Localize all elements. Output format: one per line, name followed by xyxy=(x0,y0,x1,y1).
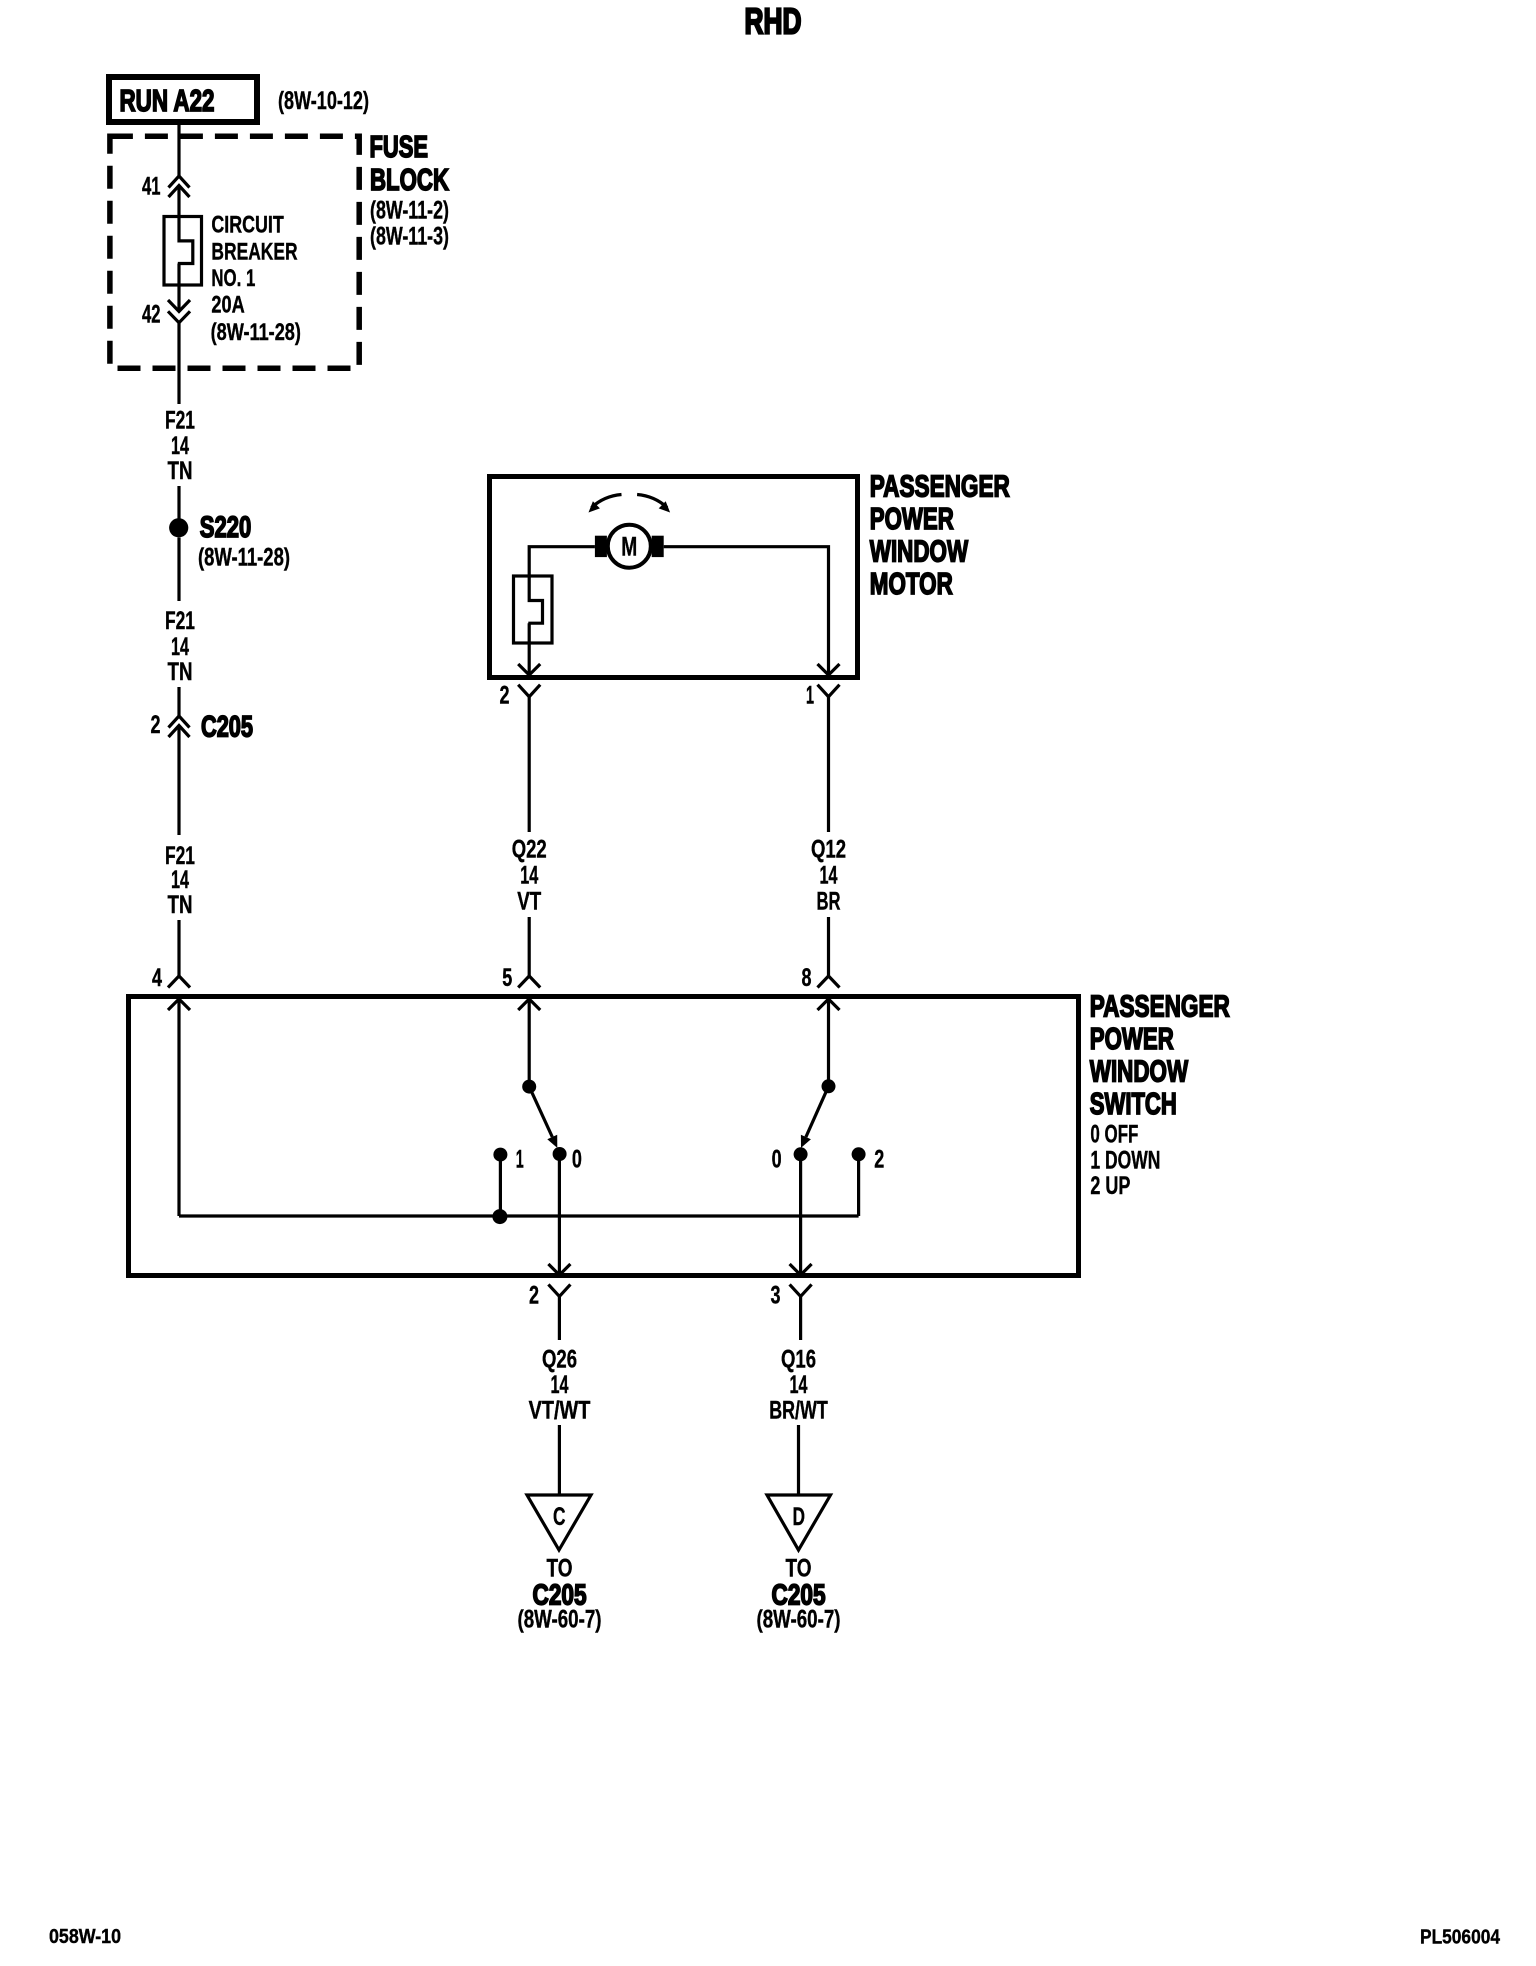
svg-text:RUN A22: RUN A22 xyxy=(120,83,215,118)
svg-text:TN: TN xyxy=(168,658,193,686)
contact 0 dot xyxy=(553,1147,567,1161)
svg-text:WINDOW: WINDOW xyxy=(1090,1054,1189,1089)
switch pivot left xyxy=(522,1080,536,1094)
svg-text:S220: S220 xyxy=(200,511,252,544)
svg-text:TO: TO xyxy=(547,1555,573,1583)
wire to splice xyxy=(177,486,180,519)
junction dot xyxy=(492,1209,507,1224)
motor brush right xyxy=(652,536,664,557)
svg-text:20A: 20A xyxy=(211,291,244,318)
svg-text:(8W-60-7): (8W-60-7) xyxy=(518,1606,602,1634)
svg-text:NO. 1: NO. 1 xyxy=(211,265,255,292)
svg-text:PASSENGER: PASSENGER xyxy=(1090,989,1230,1024)
switch pivot right xyxy=(822,1079,836,1093)
wire contact0 down exit xyxy=(558,1154,561,1275)
svg-text:(8W-11-28): (8W-11-28) xyxy=(198,544,290,572)
connector Y motor pin 2 xyxy=(518,685,540,697)
svg-text:1 DOWN: 1 DOWN xyxy=(1090,1147,1160,1175)
svg-text:Q16: Q16 xyxy=(781,1346,816,1374)
svg-text:4: 4 xyxy=(152,964,162,992)
motor M xyxy=(608,525,651,568)
wire Q12 to switch pin 8 xyxy=(827,917,830,976)
svg-text:0: 0 xyxy=(572,1145,582,1173)
svg-text:BLOCK: BLOCK xyxy=(370,162,449,197)
svg-text:14: 14 xyxy=(551,1371,569,1399)
svg-text:(8W-11-3): (8W-11-3) xyxy=(370,222,449,250)
svg-text:BREAKER: BREAKER xyxy=(211,238,297,265)
node RUN A22 feed box xyxy=(109,77,257,122)
svg-text:8: 8 xyxy=(802,964,812,992)
svg-text:0 OFF: 0 OFF xyxy=(1090,1121,1138,1149)
rotation arrow left xyxy=(592,495,622,508)
wire contact1 to bus xyxy=(499,1155,502,1216)
svg-text:Q26: Q26 xyxy=(542,1346,577,1374)
contact 1 dot xyxy=(493,1148,507,1162)
connector pin 41 chevrons xyxy=(169,176,190,197)
svg-text:C205: C205 xyxy=(201,711,253,744)
wire contact0 right down exit xyxy=(799,1154,802,1275)
wire below splice xyxy=(177,538,180,602)
arrowhead motor pin1 xyxy=(818,664,840,675)
svg-text:1: 1 xyxy=(806,682,814,710)
wire contact2 to bus xyxy=(857,1154,860,1216)
wire entry4 down xyxy=(177,999,180,1216)
svg-text:2: 2 xyxy=(874,1145,884,1173)
svg-text:POWER: POWER xyxy=(870,501,954,536)
wire entry5 to pivot xyxy=(528,999,531,1086)
svg-text:SWITCH: SWITCH xyxy=(1090,1086,1177,1121)
wire to switch pin 4 xyxy=(177,920,180,976)
switch arm right xyxy=(806,1086,829,1137)
wire motor internal left xyxy=(529,547,595,575)
svg-text:TN: TN xyxy=(168,891,193,919)
svg-text:14: 14 xyxy=(171,432,189,460)
bus wire horizontal xyxy=(179,1214,859,1217)
svg-text:058W-10: 058W-10 xyxy=(49,1926,121,1948)
motor circuit breaker element xyxy=(528,575,542,676)
splice S220 xyxy=(169,518,188,537)
svg-text:41: 41 xyxy=(142,173,161,201)
svg-text:2: 2 xyxy=(500,682,510,710)
wire from RUN A22 into fuse block xyxy=(177,122,180,176)
svg-text:PASSENGER: PASSENGER xyxy=(870,469,1010,504)
svg-text:(8W-11-2): (8W-11-2) xyxy=(370,197,449,225)
svg-text:BR/WT: BR/WT xyxy=(769,1396,828,1424)
wire fuse block exit xyxy=(177,323,180,404)
svg-text:14: 14 xyxy=(790,1371,808,1399)
svg-text:14: 14 xyxy=(520,861,538,889)
fuse block dashed boundary xyxy=(110,136,359,368)
svg-text:POWER: POWER xyxy=(1090,1021,1174,1056)
rotation arrow right xyxy=(637,495,667,508)
arrowhead switch entry 4 xyxy=(168,999,190,1010)
contact 0 right dot xyxy=(794,1147,808,1161)
wire to connector C205 xyxy=(177,687,180,716)
motor circuit breaker body xyxy=(514,576,553,643)
motor brush left xyxy=(595,536,607,557)
arrowhead switch entry 8 xyxy=(818,999,840,1010)
contact 2 dot xyxy=(852,1147,866,1161)
connector Y switch pin 2 xyxy=(548,1284,570,1296)
svg-text:(8W-10-12): (8W-10-12) xyxy=(278,87,369,115)
svg-text:1: 1 xyxy=(516,1145,524,1173)
svg-text:2: 2 xyxy=(529,1282,539,1310)
svg-text:14: 14 xyxy=(171,866,189,894)
wire to off-page C xyxy=(558,1425,561,1495)
off-page connector C triangle xyxy=(527,1495,591,1550)
wire to off-page D xyxy=(797,1425,800,1495)
svg-text:0: 0 xyxy=(772,1145,782,1173)
arrowhead motor pin2 xyxy=(518,664,540,675)
svg-text:WINDOW: WINDOW xyxy=(870,534,969,569)
connector chevron pin 8 xyxy=(818,976,840,988)
connector Y switch pin 3 xyxy=(790,1284,812,1296)
svg-text:VT/WT: VT/WT xyxy=(529,1396,591,1424)
svg-text:RHD: RHD xyxy=(745,1,802,42)
svg-text:Q22: Q22 xyxy=(512,835,547,863)
connector chevron pin 5 xyxy=(518,976,540,988)
connector chevron pin 4 xyxy=(168,976,190,988)
wire motor internal right xyxy=(664,547,829,675)
svg-text:CIRCUIT: CIRCUIT xyxy=(211,212,284,239)
svg-text:TO: TO xyxy=(786,1555,812,1583)
wire Q22 to switch pin 5 xyxy=(528,917,531,976)
svg-text:14: 14 xyxy=(171,633,189,661)
circuit breaker No.1 element xyxy=(178,215,193,311)
arrowhead switch exit 3 xyxy=(790,1264,812,1275)
passenger power window motor box xyxy=(490,477,858,678)
svg-text:Q12: Q12 xyxy=(811,835,846,863)
svg-text:C: C xyxy=(553,1503,566,1531)
circuit breaker No.1 body xyxy=(164,217,202,286)
svg-text:14: 14 xyxy=(820,861,838,889)
arrowhead switch exit 2 xyxy=(548,1264,570,1275)
svg-text:5: 5 xyxy=(502,964,512,992)
connector pin 42 chevrons xyxy=(168,300,190,323)
wire below C205 xyxy=(177,726,180,836)
svg-text:VT: VT xyxy=(517,887,541,915)
svg-text:MOTOR: MOTOR xyxy=(870,566,953,601)
svg-text:2: 2 xyxy=(151,711,161,739)
svg-text:BR: BR xyxy=(817,887,841,915)
connector Y motor pin 1 xyxy=(818,685,840,697)
svg-text:2 UP: 2 UP xyxy=(1090,1172,1130,1200)
svg-text:PL506004: PL506004 xyxy=(1420,1927,1501,1949)
svg-text:F21: F21 xyxy=(165,407,195,435)
svg-text:M: M xyxy=(621,531,637,561)
svg-text:F21: F21 xyxy=(165,607,195,635)
wire pin41 to breaker xyxy=(177,186,180,217)
svg-text:FUSE: FUSE xyxy=(370,129,429,164)
svg-text:D: D xyxy=(793,1503,806,1531)
svg-text:(8W-11-28): (8W-11-28) xyxy=(211,319,301,346)
wire entry8 to pivot xyxy=(827,999,830,1086)
connector C205 chevrons xyxy=(169,716,190,737)
off-page connector D triangle xyxy=(767,1495,831,1550)
switch arm left xyxy=(529,1087,552,1137)
arrowhead switch entry 5 xyxy=(518,999,540,1010)
svg-text:TN: TN xyxy=(168,457,193,485)
svg-text:(8W-60-7): (8W-60-7) xyxy=(757,1606,841,1634)
svg-text:42: 42 xyxy=(142,301,161,329)
passenger power window switch box xyxy=(129,997,1079,1276)
svg-text:3: 3 xyxy=(771,1282,781,1310)
